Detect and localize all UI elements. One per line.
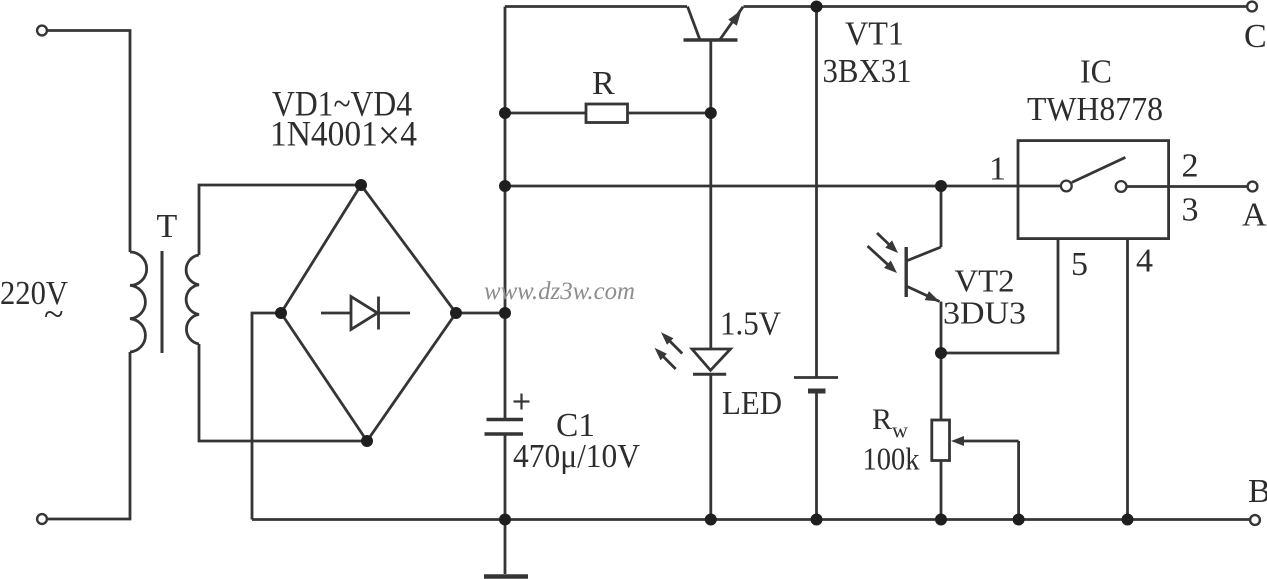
transformer T core xyxy=(161,251,164,353)
svg-text:470μ/10V: 470μ/10V xyxy=(513,438,640,475)
svg-text:B: B xyxy=(1248,473,1267,510)
svg-text:T: T xyxy=(157,208,178,245)
svg-text:C: C xyxy=(1244,18,1267,55)
svg-text:VT2: VT2 xyxy=(955,263,1015,299)
junction dot: VT2 emitter node xyxy=(935,347,947,359)
potentiometer Rw xyxy=(932,353,1019,520)
terminal: output C xyxy=(1247,2,1257,12)
transistor VT1 xyxy=(684,7,744,114)
battery GB (1.5V cell) xyxy=(794,7,838,520)
terminal: AC input top-left xyxy=(37,26,47,36)
junction dot: bridge top vertex xyxy=(355,179,367,191)
junction dot: battery top xyxy=(811,1,823,13)
svg-text:Rw: Rw xyxy=(872,403,908,443)
transformer T secondary winding xyxy=(186,255,199,344)
wire: ground stub xyxy=(504,520,507,575)
IC TWH8778 box xyxy=(1018,141,1169,239)
wire: top-left terminal to transformer primary top xyxy=(47,31,130,253)
junction dot: ground rail at battery xyxy=(811,514,823,526)
svg-text:3DU3: 3DU3 xyxy=(943,295,1026,331)
VT2 light arrows xyxy=(868,233,899,273)
svg-text:2: 2 xyxy=(1182,148,1199,185)
junction dot: ground rail at wiper xyxy=(1013,514,1025,526)
junction dot: ground rail at Rw xyxy=(935,514,947,526)
svg-text:IC: IC xyxy=(1080,54,1112,91)
wire: C1 to ground rail xyxy=(504,434,507,520)
svg-text:1: 1 xyxy=(989,151,1006,188)
ground symbol xyxy=(484,574,528,579)
svg-text:100k: 100k xyxy=(863,441,920,477)
junction dot: ground rail at pin 4 xyxy=(1122,514,1134,526)
LED xyxy=(692,113,731,520)
wire: bridge - output down to ground rail xyxy=(252,313,281,520)
junction dot: R right / VT1 base xyxy=(705,107,717,119)
junction dot: bridge left vertex xyxy=(275,307,287,319)
junction dot: ground rail at LED xyxy=(705,514,717,526)
junction dot: ground rail at C1 xyxy=(499,514,511,526)
wire: VT2 emitter node to IC pin 5 xyxy=(941,239,1058,353)
wire: IC pin 2 to terminal A xyxy=(1127,185,1248,188)
junction dot: VT2 collector tap xyxy=(935,180,947,192)
capacitor C1 xyxy=(485,394,530,435)
junction dot: bridge bottom vertex xyxy=(361,435,373,447)
diode symbol inside bridge xyxy=(321,312,351,315)
wire: IC pin 4 down to ground rail xyxy=(1126,239,1129,520)
svg-text:TWH8778: TWH8778 xyxy=(1027,91,1163,128)
wire: +V rail to IC pin 1 xyxy=(505,185,1061,188)
transformer T primary winding xyxy=(130,252,147,352)
LED light arrows xyxy=(655,332,683,369)
svg-text:4: 4 xyxy=(1136,243,1153,280)
resistor R xyxy=(505,104,711,123)
wire: bottom-left terminal to transformer primary bottom xyxy=(47,352,130,519)
wire: secondary bottom to bridge AC vertex xyxy=(199,344,367,441)
bridge rectifier VD1~VD4 diamond xyxy=(281,185,456,441)
junction dot: rail / R left xyxy=(499,107,511,119)
terminal: output A xyxy=(1248,182,1258,192)
svg-text:5: 5 xyxy=(1071,246,1088,283)
svg-text:www.dz3w.com: www.dz3w.com xyxy=(484,278,635,305)
svg-text:3: 3 xyxy=(1182,192,1199,229)
wire: top rail left segment xyxy=(505,5,687,8)
terminal: AC input bottom-left xyxy=(37,514,47,524)
phototransistor VT2 xyxy=(906,186,941,353)
wire: main positive vertical rail xyxy=(504,7,507,420)
terminal: output B xyxy=(1250,515,1260,525)
wire: secondary top to bridge AC vertex xyxy=(199,185,361,255)
switch inside IC xyxy=(1061,157,1127,192)
wire: bridge + output to main rail xyxy=(456,312,505,315)
svg-text:1N4001×4: 1N4001×4 xyxy=(270,114,417,160)
svg-text:LED: LED xyxy=(722,385,782,422)
wire: bottom ground rail xyxy=(252,518,1250,521)
svg-text:A: A xyxy=(1242,197,1267,234)
svg-text:3BX31: 3BX31 xyxy=(823,53,912,90)
svg-text:R: R xyxy=(592,65,615,102)
junction dot: rail at +V row xyxy=(499,180,511,192)
junction dot: rail at bridge output xyxy=(499,307,511,319)
svg-text:VT1: VT1 xyxy=(845,16,904,53)
wire: top rail right segment xyxy=(744,5,1248,8)
svg-text:1.5V: 1.5V xyxy=(720,306,781,343)
svg-text:~: ~ xyxy=(44,294,63,334)
junction dot: bridge right vertex xyxy=(450,307,462,319)
